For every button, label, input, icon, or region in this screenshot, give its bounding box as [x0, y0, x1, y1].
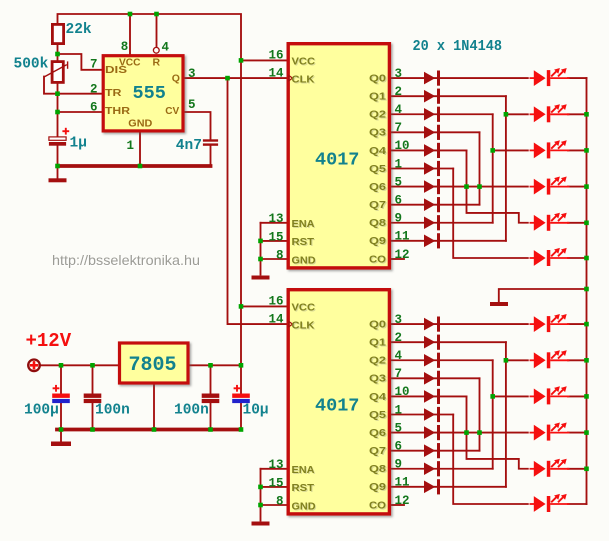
svg-text:1: 1	[395, 403, 403, 417]
wire vertical Q1-Q9 diode bus	[505, 96, 507, 241]
junction cathode rail y=324	[584, 322, 589, 327]
LED LED11	[530, 459, 570, 477]
capacitor C3 100u electrolytic	[52, 394, 70, 398]
power connector +12V	[28, 360, 40, 372]
svg-text:THR: THR	[105, 105, 130, 117]
diode D19 1N4148	[424, 461, 440, 476]
junction out rail C100n2	[208, 363, 213, 368]
wire pot wiper to TR pin2	[44, 77, 102, 94]
svg-text:2: 2	[395, 85, 403, 99]
junction cathode rail y=258	[584, 256, 589, 261]
junction 22k/pot/DIS node	[55, 52, 60, 57]
wire pin8 VCC of 555	[129, 14, 131, 54]
junction bottom rail C100n1	[90, 427, 95, 432]
svg-text:2: 2	[90, 82, 98, 96]
wire U2 ENA pin13	[261, 468, 287, 470]
junction VCC U2 tap	[239, 304, 244, 309]
diode D20 1N4148	[424, 479, 440, 494]
svg-text:Q5: Q5	[369, 163, 386, 175]
wire +5V top rail	[58, 14, 242, 60]
svg-text:6: 6	[395, 439, 403, 453]
junction pot wiper TR node	[55, 91, 60, 96]
wire CO stub	[391, 504, 404, 506]
wire LED cathode to rail	[568, 149, 587, 151]
junction cathode rail y=360	[584, 358, 589, 363]
diode D6 1N4148	[424, 161, 440, 176]
clock input chevron U2	[289, 321, 293, 326]
junction cathode rail y=150	[584, 148, 589, 153]
counter U1 4017 body	[288, 44, 389, 268]
svg-text:ENA: ENA	[292, 464, 315, 476]
junction +12V rail C100n1	[90, 363, 95, 368]
wire Q6 LED4 row	[391, 432, 528, 434]
wire LED cathode to rail	[568, 503, 587, 505]
ground led rail	[490, 302, 508, 306]
wire 4n7 bottom	[210, 146, 212, 166]
svg-text:Q7: Q7	[369, 445, 386, 457]
svg-text:4017: 4017	[315, 149, 359, 170]
svg-text:Q8: Q8	[369, 463, 386, 475]
svg-text:16: 16	[268, 49, 283, 63]
wire U1 VCC pin16	[241, 59, 287, 61]
wire Q7 row to diode	[391, 204, 480, 206]
svg-text:+12V: +12V	[26, 330, 72, 352]
svg-text:3: 3	[395, 67, 403, 81]
wire Q4 row to diode	[391, 149, 467, 151]
svg-text:9: 9	[395, 458, 403, 472]
svg-text:Q4: Q4	[369, 145, 386, 157]
diode D16 1N4148	[424, 407, 440, 422]
junction VCC U1 tap	[239, 58, 244, 63]
diode D10 1N4148	[424, 233, 440, 248]
svg-text:8: 8	[276, 494, 284, 508]
wire C10u bottom stub	[240, 403, 242, 428]
svg-text:12: 12	[395, 494, 410, 508]
plus mark C6	[234, 385, 241, 392]
diode D1 1N4148	[424, 71, 440, 86]
diode D7 1N4148	[424, 179, 440, 194]
junction U2 RST node	[258, 485, 263, 490]
junction 7805 out / 10u / VCC riser	[239, 363, 244, 368]
svg-text:10: 10	[395, 139, 410, 153]
wire 555 CV to 4n7	[184, 112, 211, 139]
svg-text:100n: 100n	[95, 403, 130, 419]
wire vertical Q3-Q7 diode bus	[479, 378, 481, 450]
junction U1 GND node	[258, 257, 263, 262]
svg-text:CV: CV	[165, 105, 179, 117]
svg-text:5: 5	[395, 421, 403, 435]
wire CO stub	[391, 258, 404, 260]
svg-text:4017: 4017	[315, 395, 359, 416]
svg-text:5: 5	[395, 175, 403, 189]
counter U2 4017 body	[288, 290, 389, 514]
wire LED cathode to rail	[568, 359, 587, 361]
wire Q1 row to diode	[391, 95, 506, 97]
wire VCC rail down to U2 and 7805 output	[240, 60, 242, 365]
wire Q5 row to diode	[391, 168, 453, 170]
svg-text:Q5: Q5	[369, 409, 386, 421]
clock input chevron U1	[289, 75, 293, 80]
svg-text:TR: TR	[105, 87, 122, 99]
wire U1 ENA pin13	[261, 222, 287, 224]
wire vertical Q4 diode bus	[467, 396, 528, 468]
capacitor C5 100n	[202, 394, 220, 398]
junction cathode rail y=223	[584, 221, 589, 226]
svg-text:7805: 7805	[129, 354, 177, 377]
junction cathode rail y=469	[584, 467, 589, 472]
wire Q9 row to diode	[391, 240, 506, 242]
svg-text:Q0: Q0	[369, 319, 386, 331]
junction cathode rail y=289	[584, 287, 589, 292]
wire vertical Q1-Q9 diode bus	[505, 342, 507, 487]
svg-text:8: 8	[121, 40, 129, 54]
svg-text:Q8: Q8	[369, 217, 386, 229]
wire Q2 row to diode	[391, 113, 493, 115]
svg-text:13: 13	[268, 212, 283, 226]
junction diode bus LED3 row	[490, 394, 495, 399]
svg-text:10: 10	[395, 385, 410, 399]
wire vertical Q2-Q8 diode bus	[492, 114, 494, 222]
wire 1u bottom to gnd rail	[57, 146, 59, 166]
wire THR pin6	[58, 111, 102, 113]
svg-text:R: R	[153, 57, 161, 69]
wire Q3 row to diode	[391, 131, 480, 133]
wire Q8 row to diode	[391, 468, 493, 470]
svg-text:CLK: CLK	[292, 73, 315, 85]
junction cathode rail y=187	[584, 184, 589, 189]
capacitor C6 10u electrolytic	[232, 394, 250, 398]
svg-text:8: 8	[276, 248, 284, 262]
svg-text:GND: GND	[292, 500, 316, 512]
potentiometer R2 500k	[44, 61, 68, 82]
svg-text:http://bsselektronika.hu: http://bsselektronika.hu	[52, 252, 200, 268]
wire Q2 row to diode	[391, 359, 493, 361]
svg-text:Q3: Q3	[369, 127, 386, 139]
wire C100n2 top stub	[210, 365, 212, 393]
wire LED cathode to rail	[568, 432, 587, 434]
wire LED cathode to rail	[568, 222, 587, 224]
wire 555 Q out to U1 CLK	[184, 77, 287, 79]
svg-text:VCC: VCC	[292, 302, 316, 314]
wire rail ground tap	[499, 289, 587, 302]
wire pin4 reset of 555	[156, 14, 158, 47]
wire LED cathode to rail	[568, 468, 587, 470]
timer U3 555 body	[103, 56, 183, 131]
wire LED cathode to rail	[568, 186, 587, 188]
LED LED9	[530, 386, 570, 404]
wire LED2 anode	[506, 359, 528, 361]
junction top rail pin8	[128, 12, 133, 17]
svg-text:Q9: Q9	[369, 481, 386, 493]
diode D14 1N4148	[424, 371, 440, 386]
junction 555 pin1 gnd	[138, 164, 143, 169]
wire vertical Q2-Q8 diode bus	[492, 360, 494, 468]
svg-text:CLK: CLK	[292, 319, 315, 331]
junction bottom rail C100n2	[208, 427, 213, 432]
svg-text:VCC: VCC	[292, 56, 316, 68]
svg-text:555: 555	[133, 83, 166, 104]
junction diode bus LED2 row	[504, 112, 509, 117]
wire Q8 row to diode	[391, 222, 493, 224]
wire C100n2 bottom stub	[210, 403, 212, 428]
wire C10u top stub	[240, 365, 242, 393]
wire 7805 gnd stub	[153, 385, 155, 429]
junction diode bus LED4 row b	[477, 430, 482, 435]
svg-text:2: 2	[395, 331, 403, 345]
wire LED2 anode	[506, 113, 528, 115]
junction cathode rail y=396	[584, 394, 589, 399]
junction cathode rail y=433	[584, 430, 589, 435]
svg-text:100µ: 100µ	[24, 403, 59, 419]
wire LED cathode to rail	[568, 323, 587, 325]
wire Q3 row to diode	[391, 377, 480, 379]
wire U2 VCC pin16	[241, 305, 287, 307]
wire Q9 row to diode	[391, 486, 506, 488]
capacitor C1 1u electrolytic	[49, 137, 66, 146]
svg-text:GND: GND	[292, 254, 316, 266]
wire 555 pin1 gnd	[139, 132, 141, 166]
svg-text:14: 14	[268, 312, 284, 326]
diode D9 1N4148	[424, 215, 440, 230]
diode D15 1N4148	[424, 389, 440, 404]
svg-text:RST: RST	[292, 482, 315, 494]
LED LED5	[530, 213, 570, 231]
wire LED cathode to rail	[568, 77, 587, 79]
wire LED cathode to rail	[568, 257, 587, 259]
wire LED3 anode	[493, 149, 528, 151]
wire LED3 anode	[493, 395, 528, 397]
svg-text:7: 7	[90, 57, 98, 71]
svg-text:22k: 22k	[66, 22, 92, 38]
svg-text:4: 4	[395, 349, 403, 363]
svg-text:DIS: DIS	[105, 64, 127, 76]
svg-text:4: 4	[395, 103, 403, 117]
wire DIS pin7	[58, 54, 102, 70]
svg-text:14: 14	[268, 66, 284, 80]
svg-text:Q6: Q6	[369, 181, 386, 193]
junction bottom rail C100u	[59, 427, 64, 432]
junction gnd rail left	[55, 164, 60, 169]
LED LED10	[530, 423, 570, 441]
diode D5 1N4148	[424, 143, 440, 158]
svg-text:1: 1	[126, 139, 134, 153]
wire U2 RST pin15	[261, 486, 287, 488]
ground U1	[252, 276, 270, 280]
svg-text:15: 15	[268, 230, 283, 244]
svg-text:3: 3	[188, 67, 196, 81]
svg-text:Q3: Q3	[369, 373, 386, 385]
wire gnd stub bottom-left	[60, 430, 62, 442]
wire CLK tap down to U2	[228, 78, 287, 324]
wire LED cathode rail	[586, 78, 588, 504]
wire C100u top stub	[60, 365, 62, 393]
junction Q to CLK2 tap	[225, 76, 230, 81]
junction diode bus LED4 row a	[464, 184, 469, 189]
regulator U4 7805 body	[120, 343, 189, 383]
wire U1 GND pin8	[261, 258, 287, 260]
junction diode bus LED2 row	[504, 358, 509, 363]
wire 22k bottom to pot	[57, 45, 59, 60]
wire 7805 output rail	[190, 364, 242, 366]
svg-text:Q2: Q2	[369, 109, 386, 121]
wire gnd bottom rail	[57, 428, 241, 432]
LED LED1	[530, 68, 570, 86]
wire gnd rail under 555	[58, 164, 211, 168]
wire Q0 row to diode and LED	[391, 323, 528, 325]
ground top-left	[49, 178, 67, 182]
diode D17 1N4148	[424, 425, 440, 440]
wire gnd stub top-left	[57, 166, 59, 178]
svg-text:Q1: Q1	[369, 91, 386, 103]
junction diode bus LED4 row a	[464, 430, 469, 435]
wire Q1 row to diode	[391, 341, 506, 343]
svg-text:Q7: Q7	[369, 199, 386, 211]
diode D2 1N4148	[424, 89, 440, 104]
svg-text:100n: 100n	[174, 403, 209, 419]
reset circle pin4	[153, 47, 159, 53]
junction top rail pin4	[154, 12, 159, 17]
svg-text:11: 11	[395, 476, 410, 490]
wire Q4 row to diode	[391, 395, 467, 397]
junction +12V rail C100u	[59, 363, 64, 368]
svg-text:Q1: Q1	[369, 337, 386, 349]
svg-text:1: 1	[395, 157, 403, 171]
svg-text:16: 16	[268, 295, 283, 309]
wire LED cathode to rail	[568, 395, 587, 397]
LED LED12	[530, 494, 570, 512]
svg-text:Q0: Q0	[369, 73, 386, 85]
capacitor C4 100n	[84, 394, 102, 398]
wire vertical Q5 to LED6 row	[453, 415, 528, 505]
svg-text:RST: RST	[292, 236, 315, 248]
junction diode bus LED3 row	[490, 148, 495, 153]
svg-text:6: 6	[395, 193, 403, 207]
wire C100n1 bottom stub	[92, 403, 94, 428]
svg-text:11: 11	[395, 230, 410, 244]
wire Q6 LED4 row	[391, 186, 528, 188]
svg-text:Q2: Q2	[369, 355, 386, 367]
junction U2 GND node	[258, 503, 263, 508]
junction diode bus LED4 row b	[477, 184, 482, 189]
svg-text:1µ: 1µ	[70, 136, 87, 152]
resistor R1 22k	[52, 24, 63, 43]
wire C100u bottom stub	[60, 403, 62, 428]
wire Q5 row to diode	[391, 414, 453, 416]
LED LED6	[530, 248, 570, 266]
LED LED2	[530, 104, 570, 122]
LED LED4	[530, 177, 570, 195]
ground bottom-left	[51, 442, 71, 447]
svg-text:Q: Q	[172, 73, 180, 85]
svg-text:13: 13	[268, 458, 283, 472]
svg-text:7: 7	[395, 121, 403, 135]
svg-text:CO: CO	[369, 253, 386, 265]
wire vertical Q5 to LED6 row	[453, 169, 528, 259]
wire U1 RST pin15	[261, 240, 287, 242]
svg-text:Q6: Q6	[369, 427, 386, 439]
svg-text:6: 6	[90, 101, 98, 115]
wire LED cathode to rail	[568, 113, 587, 115]
svg-text:10µ: 10µ	[243, 403, 269, 419]
diode D18 1N4148	[424, 443, 440, 458]
svg-text:15: 15	[268, 476, 283, 490]
wire C100n1 top stub	[92, 365, 94, 393]
diode D4 1N4148	[424, 125, 440, 140]
wire vertical Q3-Q7 diode bus	[479, 132, 481, 204]
plus mark C1	[62, 128, 69, 135]
wire Q0 row to diode and LED	[391, 77, 528, 79]
svg-text:20 x 1N4148: 20 x 1N4148	[413, 38, 503, 55]
wire vertical Q4 diode bus	[467, 150, 528, 222]
junction bottom rail 7805 gnd	[152, 427, 157, 432]
svg-text:Q9: Q9	[369, 235, 386, 247]
wire pot bottom down	[57, 84, 59, 137]
LED LED3	[530, 140, 570, 158]
diode D11 1N4148	[424, 317, 440, 332]
svg-text:Q4: Q4	[369, 391, 386, 403]
svg-text:CO: CO	[369, 499, 386, 511]
LED LED7	[530, 314, 570, 332]
diode D8 1N4148	[424, 197, 440, 212]
junction bottom rail C10u	[239, 427, 244, 432]
diode D12 1N4148	[424, 335, 440, 350]
plus mark C3	[53, 385, 60, 392]
wire U2 GND pin8	[261, 504, 287, 506]
capacitor C2 4n7	[203, 139, 218, 145]
junction THR node	[55, 110, 60, 115]
svg-text:12: 12	[395, 248, 410, 262]
svg-text:4n7: 4n7	[176, 138, 202, 154]
svg-text:3: 3	[395, 313, 403, 327]
junction U1 RST node	[258, 239, 263, 244]
svg-text:9: 9	[395, 212, 403, 226]
wire +12V input rail	[40, 364, 118, 366]
svg-text:7: 7	[395, 367, 403, 381]
junction cathode rail y=114	[584, 112, 589, 117]
diode D3 1N4148	[424, 107, 440, 122]
svg-text:5: 5	[188, 98, 196, 112]
svg-text:ENA: ENA	[292, 218, 315, 230]
ground U2	[252, 522, 270, 526]
wire Q7 row to diode	[391, 450, 480, 452]
diode D13 1N4148	[424, 353, 440, 368]
svg-text:500k: 500k	[14, 57, 49, 73]
svg-text:4: 4	[162, 40, 170, 54]
LED LED8	[530, 350, 570, 368]
svg-text:GND: GND	[128, 117, 152, 129]
